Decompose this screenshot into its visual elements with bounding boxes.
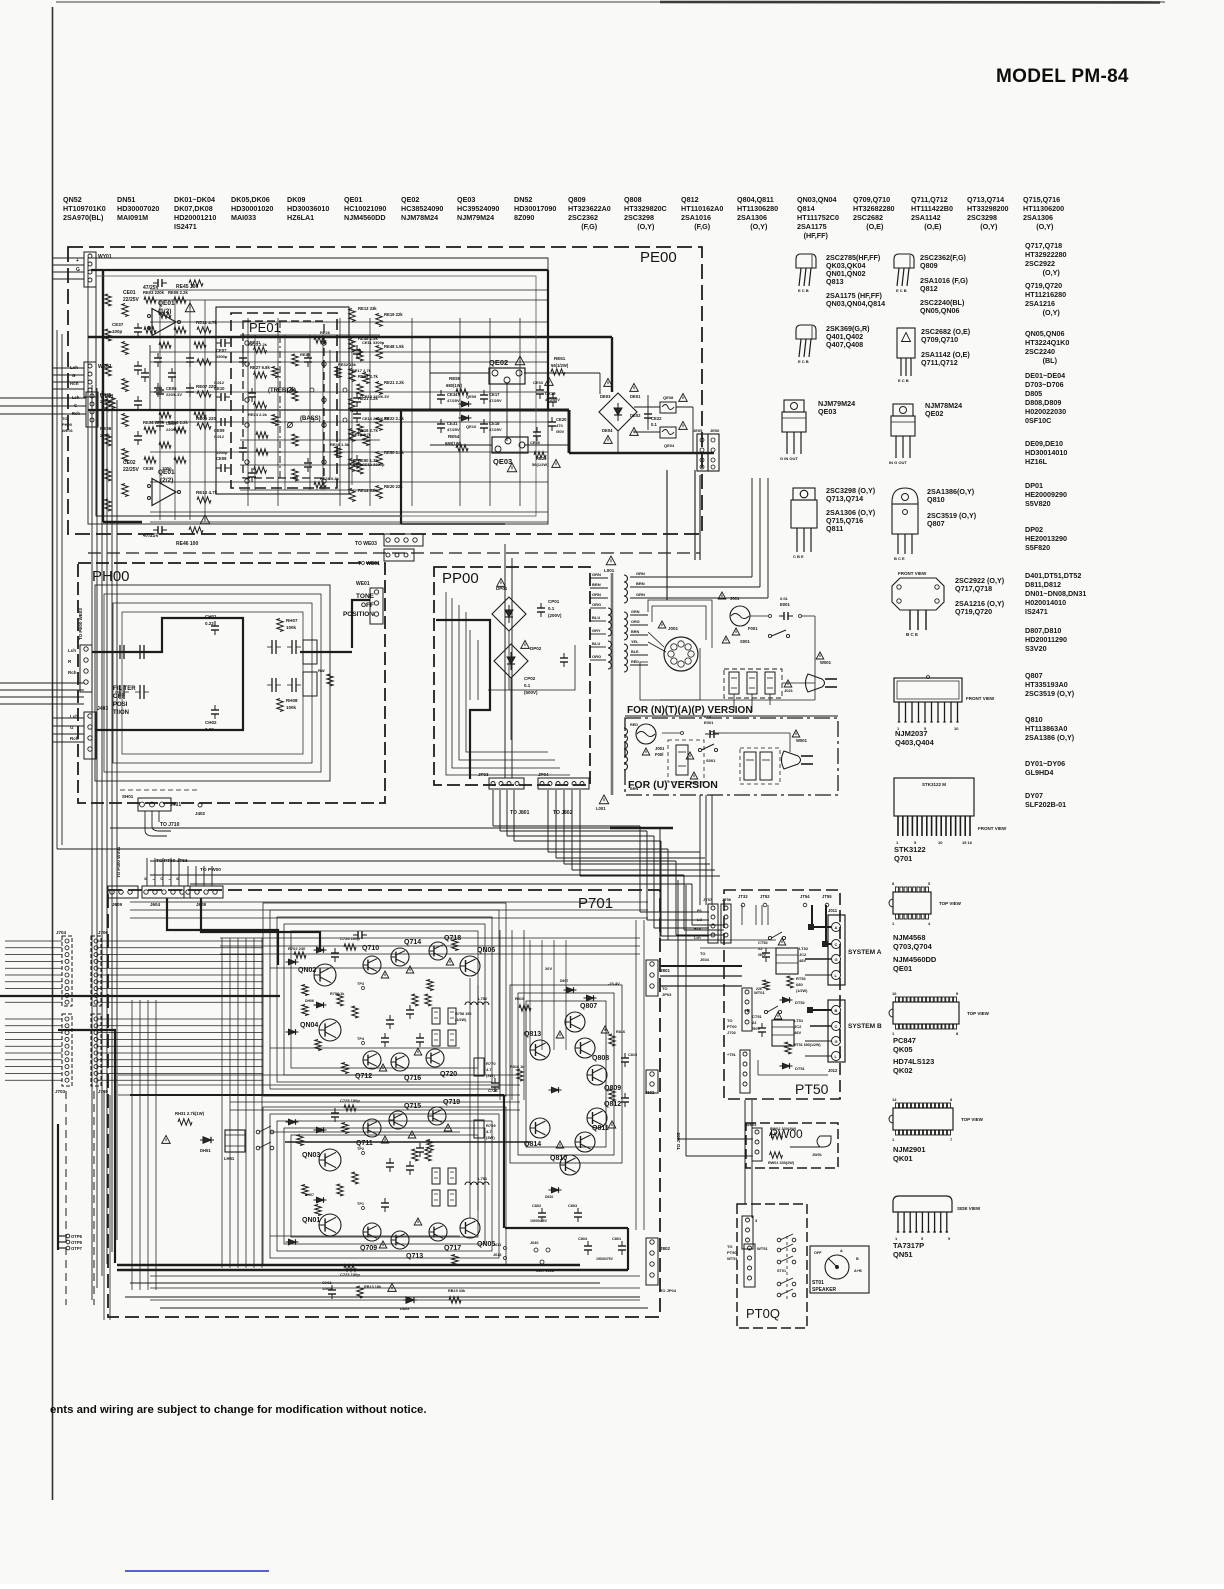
svg-text:(BL): (BL) xyxy=(1043,356,1058,365)
svg-text:DE01: DE01 xyxy=(630,394,641,399)
svg-text:JT33: JT33 xyxy=(738,894,748,899)
svg-text:L001: L001 xyxy=(604,568,615,573)
svg-text:(200V): (200V) xyxy=(548,613,562,618)
svg-text:A: A xyxy=(835,925,838,930)
svg-text:Q709,Q710: Q709,Q710 xyxy=(921,335,958,344)
svg-text:DE01~DE04: DE01~DE04 xyxy=(1025,371,1065,380)
svg-text:DT52: DT52 xyxy=(795,1000,806,1005)
svg-text:Q711,Q712: Q711,Q712 xyxy=(911,195,948,204)
svg-text:DH51: DH51 xyxy=(200,1148,211,1153)
svg-text:(500V): (500V) xyxy=(524,690,538,695)
svg-text:TA7317P: TA7317P xyxy=(893,1241,924,1250)
svg-text:B C E: B C E xyxy=(906,632,918,637)
svg-text:DN51: DN51 xyxy=(117,195,135,204)
svg-text:HT3224Q1K0: HT3224Q1K0 xyxy=(1025,338,1069,347)
svg-text:QE02: QE02 xyxy=(925,409,943,418)
svg-text:QN52: QN52 xyxy=(63,195,82,204)
svg-text:FRONT VIEW: FRONT VIEW xyxy=(898,571,927,576)
svg-text:RE13 33k: RE13 33k xyxy=(358,306,377,311)
svg-text:QN04: QN04 xyxy=(300,1022,318,1029)
svg-text:POSI: POSI xyxy=(113,702,128,708)
svg-text:HD30001020: HD30001020 xyxy=(231,204,273,213)
svg-text:L752: L752 xyxy=(478,996,488,1001)
svg-text:BRN: BRN xyxy=(592,582,601,587)
svg-text:CE02: CE02 xyxy=(123,460,136,466)
svg-text:Q711,Q712: Q711,Q712 xyxy=(921,358,958,367)
svg-text:GRY: GRY xyxy=(592,628,601,633)
svg-text:Rch: Rch xyxy=(72,411,80,416)
svg-text:1500p: 1500p xyxy=(216,450,228,455)
svg-text:F00l: F00l xyxy=(655,752,663,757)
svg-text:E001: E001 xyxy=(704,720,714,725)
svg-text:JE05: JE05 xyxy=(693,428,703,433)
svg-text:J802: J802 xyxy=(660,1246,671,1251)
svg-text:L751: L751 xyxy=(478,1176,488,1181)
svg-text:QN03,QN04,Q814: QN03,QN04,Q814 xyxy=(826,299,885,308)
svg-text:47/25V: 47/25V xyxy=(143,533,160,539)
svg-text:ST01: ST01 xyxy=(812,1280,824,1286)
svg-text:IS2471: IS2471 xyxy=(1025,607,1048,616)
svg-text:QN51: QN51 xyxy=(893,1250,913,1259)
svg-text:CE31: CE31 xyxy=(447,421,458,426)
svg-text:Q720: Q720 xyxy=(440,1071,457,1078)
svg-text:WT51: WT51 xyxy=(727,1256,738,1261)
svg-text:BLE: BLE xyxy=(631,650,639,654)
svg-text:TO WE03: TO WE03 xyxy=(355,541,377,547)
svg-text:DE09,DE10: DE09,DE10 xyxy=(1025,439,1063,448)
svg-text:22/25V: 22/25V xyxy=(123,297,140,303)
svg-text:HT3329820C: HT3329820C xyxy=(624,204,667,213)
svg-text:BLU: BLU xyxy=(592,641,600,646)
svg-text:(3W): (3W) xyxy=(486,1135,495,1140)
svg-text:LT52: LT52 xyxy=(799,946,809,951)
svg-text:D607: D607 xyxy=(560,979,568,983)
svg-text:+B: +B xyxy=(744,1008,751,1013)
svg-text:D703~D706: D703~D706 xyxy=(1025,380,1064,389)
svg-text:NJM79M24: NJM79M24 xyxy=(457,213,494,222)
svg-text:H020014010: H020014010 xyxy=(1025,598,1066,607)
svg-text:(O,Y): (O,Y) xyxy=(637,222,655,231)
svg-text:GRN: GRN xyxy=(592,592,601,597)
svg-text:RE23 2.2k: RE23 2.2k xyxy=(248,342,268,347)
svg-text:2SC3519 (O,Y): 2SC3519 (O,Y) xyxy=(1025,689,1075,698)
svg-text:CE22: CE22 xyxy=(651,416,662,421)
svg-text:HE20009290: HE20009290 xyxy=(1025,490,1067,499)
svg-text:56(1/2W): 56(1/2W) xyxy=(532,462,549,467)
svg-text:TO J801: TO J801 xyxy=(510,810,530,816)
svg-text:WT51: WT51 xyxy=(757,1246,768,1251)
svg-text:HT11306280: HT11306280 xyxy=(737,204,778,213)
svg-text:(O,Y): (O,Y) xyxy=(1043,308,1061,317)
svg-text:C803: C803 xyxy=(568,1204,577,1208)
svg-text:22: 22 xyxy=(752,1020,757,1025)
svg-text:LH51: LH51 xyxy=(224,1156,235,1161)
svg-text:J700: J700 xyxy=(98,1089,109,1094)
svg-text:HD20001210: HD20001210 xyxy=(174,213,216,222)
svg-text:TO PT50 JT56: TO PT50 JT56 xyxy=(156,858,188,864)
svg-text:220/6.3V: 220/6.3V xyxy=(166,427,182,432)
svg-text:470/50V: 470/50V xyxy=(545,397,560,402)
svg-text:RH08: RH08 xyxy=(286,698,298,703)
svg-text:D811,D812: D811,D812 xyxy=(1025,580,1061,589)
svg-text:CE37: CE37 xyxy=(112,322,124,327)
svg-text:D805: D805 xyxy=(1025,389,1042,398)
svg-text:J706: J706 xyxy=(98,930,109,935)
svg-text:ents and wiring are subject to: ents and wiring are subject to change fo… xyxy=(50,1404,427,1416)
svg-text:HT11306200: HT11306200 xyxy=(1023,204,1064,213)
svg-text:Q717,Q718: Q717,Q718 xyxy=(955,584,992,593)
svg-text:RE17 2.7k: RE17 2.7k xyxy=(352,368,372,373)
svg-text:(HF,FF): (HF,FF) xyxy=(804,231,829,240)
svg-text:NJM2037: NJM2037 xyxy=(895,729,928,738)
svg-text:G: G xyxy=(835,1039,838,1044)
svg-text:Q812: Q812 xyxy=(920,284,938,293)
svg-text:/50V: /50V xyxy=(758,952,767,957)
svg-text:D807,D810: D807,D810 xyxy=(1025,626,1061,635)
svg-text:QN01: QN01 xyxy=(302,1217,320,1224)
svg-text:FOR (U) VERSION: FOR (U) VERSION xyxy=(628,779,718,791)
svg-text:15 16: 15 16 xyxy=(962,840,973,845)
svg-text:R756 1k: R756 1k xyxy=(330,992,345,996)
svg-text:RH07: RH07 xyxy=(286,618,298,623)
svg-text:RE09 220: RE09 220 xyxy=(196,416,217,421)
svg-text:J001: J001 xyxy=(668,626,679,631)
svg-text:8Z090: 8Z090 xyxy=(514,213,534,222)
svg-text:B C E: B C E xyxy=(894,556,905,561)
svg-text:E001: E001 xyxy=(780,602,790,607)
svg-text:D803: D803 xyxy=(400,1307,409,1311)
svg-text:TO: TO xyxy=(727,1018,732,1023)
svg-text:RE11 4.7k: RE11 4.7k xyxy=(196,320,218,325)
svg-text:P6: P6 xyxy=(697,909,702,913)
svg-text:SH01: SH01 xyxy=(122,794,134,799)
svg-text:HT11216280: HT11216280 xyxy=(1025,290,1066,299)
svg-text:TOP VIEW: TOP VIEW xyxy=(961,1117,984,1122)
svg-text:Q813: Q813 xyxy=(524,1031,541,1038)
svg-text:IS2471: IS2471 xyxy=(174,222,197,231)
svg-text:Rch: Rch xyxy=(694,927,702,931)
svg-text:1/50V: 1/50V xyxy=(322,1287,332,1291)
svg-text:2SC3298: 2SC3298 xyxy=(967,213,997,222)
svg-text:RB13 18k: RB13 18k xyxy=(364,1285,382,1289)
svg-text:CE39: CE39 xyxy=(143,466,154,471)
svg-text:DP02: DP02 xyxy=(530,646,542,651)
svg-text:Q807: Q807 xyxy=(927,519,945,528)
svg-text:C724 100p: C724 100p xyxy=(340,936,360,941)
svg-text:MODEL PM-84: MODEL PM-84 xyxy=(996,66,1129,87)
svg-text:Q717: Q717 xyxy=(444,1245,461,1252)
svg-text:RE24 2.2k: RE24 2.2k xyxy=(248,412,268,417)
svg-text:(O,Y): (O,Y) xyxy=(750,222,768,231)
svg-text:R815: R815 xyxy=(515,997,524,1001)
svg-text:QE03: QE03 xyxy=(493,457,512,466)
svg-text:(O,Y): (O,Y) xyxy=(980,222,998,231)
svg-text:RED: RED xyxy=(630,723,638,727)
svg-text:JT52: JT52 xyxy=(760,894,770,899)
svg-text:RE48 1.5k: RE48 1.5k xyxy=(384,344,404,349)
svg-text:Q719,Q720: Q719,Q720 xyxy=(1025,281,1062,290)
svg-text:J604: J604 xyxy=(150,902,161,907)
svg-text:4.7: 4.7 xyxy=(486,1067,492,1072)
svg-text:DN52: DN52 xyxy=(514,195,532,204)
svg-text:G: G xyxy=(72,373,76,378)
svg-text:2SA1175: 2SA1175 xyxy=(797,222,827,231)
svg-text:220/6.3V: 220/6.3V xyxy=(166,392,182,397)
svg-text:RE46 100: RE46 100 xyxy=(176,541,198,547)
svg-text:JP04: JP04 xyxy=(538,772,549,777)
svg-text:DN01~DN08,DN31: DN01~DN08,DN31 xyxy=(1025,589,1086,598)
svg-text:HT32682280: HT32682280 xyxy=(853,204,895,213)
svg-text:470: 470 xyxy=(556,423,563,428)
svg-text:HD20011290: HD20011290 xyxy=(1025,635,1067,644)
svg-text:L001: L001 xyxy=(596,806,606,811)
svg-text:FOR (N)(T)(A)(P) VERSION: FOR (N)(T)(A)(P) VERSION xyxy=(627,705,753,716)
svg-text:Q811: Q811 xyxy=(826,524,843,533)
svg-text:C801: C801 xyxy=(612,1237,621,1241)
svg-text:HC10021090: HC10021090 xyxy=(344,204,386,213)
svg-text:Rch: Rch xyxy=(68,670,77,675)
svg-text:PP00: PP00 xyxy=(442,570,479,587)
svg-text:D401,DT51,DT52: D401,DT51,DT52 xyxy=(1025,571,1081,580)
svg-text:2SA1216: 2SA1216 xyxy=(1025,299,1055,308)
svg-text:B: B xyxy=(835,1008,838,1013)
svg-text:26V: 26V xyxy=(545,966,552,971)
svg-text:CP02: CP02 xyxy=(524,676,536,681)
svg-text:RE55: RE55 xyxy=(449,376,461,381)
svg-text:QK01: QK01 xyxy=(893,1154,913,1163)
svg-text:TO PW00: TO PW00 xyxy=(200,867,221,873)
svg-text:TO: TO xyxy=(662,986,667,991)
svg-text:0.01: 0.01 xyxy=(704,714,713,719)
svg-text:RE12 4.7k: RE12 4.7k xyxy=(196,490,218,495)
svg-text:CE15 220/6.3V: CE15 220/6.3V xyxy=(362,394,389,399)
svg-text:TO PE00 WE03: TO PE00 WE03 xyxy=(78,608,83,640)
svg-text:QE01: QE01 xyxy=(893,964,912,973)
svg-text:DP01: DP01 xyxy=(1025,481,1043,490)
svg-text:Q716: Q716 xyxy=(404,1075,421,1082)
svg-text:QE08: QE08 xyxy=(663,395,674,400)
svg-text:SLF202B-01: SLF202B-01 xyxy=(1025,800,1066,809)
svg-text:GRN: GRN xyxy=(631,610,640,614)
svg-text:BRN: BRN xyxy=(636,581,645,586)
svg-text:JP03: JP03 xyxy=(662,992,672,997)
svg-text:J011: J011 xyxy=(828,908,838,913)
svg-text:TOP VIEW: TOP VIEW xyxy=(967,1011,990,1016)
svg-text:HZ16L: HZ16L xyxy=(1025,457,1048,466)
svg-text:Q812: Q812 xyxy=(681,195,699,204)
svg-text:CT51: CT51 xyxy=(752,1014,763,1019)
svg-text:4.7: 4.7 xyxy=(486,1129,492,1134)
svg-text:CH02: CH02 xyxy=(205,720,217,725)
svg-text:HT111422B0: HT111422B0 xyxy=(911,204,953,213)
svg-text:LT51: LT51 xyxy=(794,1018,804,1023)
svg-text:YEL: YEL xyxy=(631,640,639,644)
svg-text:C: C xyxy=(835,1024,838,1029)
svg-text:SPEAKER: SPEAKER xyxy=(812,1287,837,1293)
svg-text:DK07,DK08: DK07,DK08 xyxy=(174,204,213,213)
svg-text:CE08: CE08 xyxy=(216,456,227,461)
svg-text:WE01: WE01 xyxy=(356,581,370,587)
svg-text:J401: J401 xyxy=(170,802,181,808)
svg-text:QN03: QN03 xyxy=(302,1152,320,1159)
svg-text:J703: J703 xyxy=(55,1089,66,1094)
svg-text:HT110162A0: HT110162A0 xyxy=(681,204,723,213)
svg-text:J012: J012 xyxy=(828,1068,838,1073)
svg-text:JT54: JT54 xyxy=(800,894,810,899)
svg-text:(2/2): (2/2) xyxy=(160,477,173,484)
svg-text:JW01: JW01 xyxy=(812,1153,822,1157)
svg-text:J611: J611 xyxy=(493,1243,501,1247)
svg-text:PT50: PT50 xyxy=(727,1250,737,1255)
svg-text:2SC2240: 2SC2240 xyxy=(1025,347,1055,356)
svg-text:GL9HD4: GL9HD4 xyxy=(1025,768,1053,777)
svg-text:RW01 330(2W): RW01 330(2W) xyxy=(768,1161,795,1165)
svg-text:CT52: CT52 xyxy=(758,940,769,945)
svg-text:WY01: WY01 xyxy=(98,254,112,260)
svg-text:RB19 33k: RB19 33k xyxy=(448,1289,466,1293)
svg-text:Q807: Q807 xyxy=(1025,671,1043,680)
svg-text:RE27 6.8k: RE27 6.8k xyxy=(250,365,270,370)
svg-text:BRN: BRN xyxy=(631,630,639,634)
svg-text:G: G xyxy=(835,957,838,962)
svg-text:16: 16 xyxy=(892,991,897,996)
svg-text:2SC2682: 2SC2682 xyxy=(853,213,883,222)
svg-text:Q811: Q811 xyxy=(592,1125,609,1132)
svg-text:JT57: JT57 xyxy=(703,897,713,902)
svg-text:ORG: ORG xyxy=(631,620,640,624)
svg-text:Rch: Rch xyxy=(70,736,79,741)
svg-text:QN05,QN06: QN05,QN06 xyxy=(920,306,960,315)
svg-text:QE10: QE10 xyxy=(466,424,477,429)
svg-text:Q709: Q709 xyxy=(360,1245,377,1252)
svg-text:0.01: 0.01 xyxy=(780,596,789,601)
svg-text:Q810: Q810 xyxy=(927,495,945,504)
svg-text:10: 10 xyxy=(938,840,943,845)
svg-text:Q804,Q811: Q804,Q811 xyxy=(737,195,774,204)
svg-text:J801: J801 xyxy=(660,968,671,973)
svg-text:2SA1016: 2SA1016 xyxy=(681,213,711,222)
svg-text:1500p: 1500p xyxy=(216,354,228,359)
svg-text:Q407,Q408: Q407,Q408 xyxy=(826,340,863,349)
svg-text:NJM4560DD: NJM4560DD xyxy=(344,213,386,222)
svg-text:HD30014010: HD30014010 xyxy=(1025,448,1067,457)
svg-text:(1/2W): (1/2W) xyxy=(796,989,808,993)
svg-text:CE19: CE19 xyxy=(545,391,556,396)
svg-text:RE14 33k: RE14 33k xyxy=(358,488,377,493)
svg-text:RE03 220k: RE03 220k xyxy=(143,290,165,295)
svg-text:WE01: WE01 xyxy=(62,428,74,433)
svg-text:+T51: +T51 xyxy=(727,1053,736,1057)
svg-text:0SF10C: 0SF10C xyxy=(1025,416,1051,425)
svg-text:RT52: RT52 xyxy=(796,976,807,981)
svg-text:FRONT VIEW: FRONT VIEW xyxy=(966,696,995,701)
svg-text:HT33298200: HT33298200 xyxy=(967,204,1009,213)
svg-text:Q717,Q718: Q717,Q718 xyxy=(1025,241,1062,250)
svg-text:HE20013290: HE20013290 xyxy=(1025,534,1067,543)
svg-text:J704: J704 xyxy=(56,930,67,935)
svg-text:OTP5: OTP5 xyxy=(71,1240,83,1245)
svg-text:JC2: JC2 xyxy=(794,1024,802,1029)
svg-text:HD30007020: HD30007020 xyxy=(117,204,159,213)
svg-text:DK09: DK09 xyxy=(287,195,305,204)
svg-text:NJM78M24: NJM78M24 xyxy=(401,213,438,222)
svg-text:47/25V: 47/25V xyxy=(489,427,502,432)
svg-text:PE00: PE00 xyxy=(640,249,677,266)
svg-text:Q809: Q809 xyxy=(568,195,586,204)
svg-text:W001: W001 xyxy=(820,660,832,665)
svg-text:56(1/2W): 56(1/2W) xyxy=(551,363,569,368)
svg-text:NJM2901: NJM2901 xyxy=(893,1145,926,1154)
svg-text:GRN: GRN xyxy=(592,572,601,577)
svg-text:J001: J001 xyxy=(655,746,665,751)
svg-text:Q403,Q404: Q403,Q404 xyxy=(895,738,935,747)
svg-text:MAI091M: MAI091M xyxy=(117,213,148,222)
svg-text:CE20: CE20 xyxy=(556,417,567,422)
svg-text:DY07: DY07 xyxy=(1025,791,1043,800)
svg-text:HD30036010: HD30036010 xyxy=(287,204,329,213)
svg-text:QE09: QE09 xyxy=(466,394,477,399)
svg-text:+: + xyxy=(76,258,79,264)
svg-text:Q713,Q714: Q713,Q714 xyxy=(967,195,1004,204)
svg-text:QE02: QE02 xyxy=(489,358,508,367)
svg-text:SYSTEM A: SYSTEM A xyxy=(848,949,882,956)
svg-text:TO J605: TO J605 xyxy=(676,1132,681,1150)
svg-text:QN05,QN06: QN05,QN06 xyxy=(1025,329,1065,338)
svg-text:JT56: JT56 xyxy=(722,897,732,902)
svg-text:B: B xyxy=(856,1257,859,1261)
svg-text:F001: F001 xyxy=(748,626,758,631)
svg-text:E C B: E C B xyxy=(798,288,809,293)
svg-text:TO: TO xyxy=(62,416,67,421)
svg-text:(O,Y): (O,Y) xyxy=(1043,268,1061,277)
svg-text:Q712: Q712 xyxy=(355,1073,372,1080)
svg-text:HC38524090: HC38524090 xyxy=(401,204,443,213)
svg-text:PT0Q: PT0Q xyxy=(746,1306,780,1321)
svg-text:TP4: TP4 xyxy=(357,1037,365,1041)
svg-text:P701: P701 xyxy=(578,895,613,912)
svg-text:2SA1306: 2SA1306 xyxy=(1023,213,1053,222)
svg-text:RE20 22k: RE20 22k xyxy=(384,484,403,489)
svg-text:HT109701K0: HT109701K0 xyxy=(63,204,106,213)
svg-text:CE34: CE34 xyxy=(447,392,458,397)
svg-text:RE51: RE51 xyxy=(554,356,566,361)
svg-text:DY01~DY06: DY01~DY06 xyxy=(1025,759,1065,768)
svg-text:TP2: TP2 xyxy=(357,1147,364,1151)
svg-text:RE19 22k: RE19 22k xyxy=(384,312,403,317)
svg-text:(O,E): (O,E) xyxy=(866,222,884,231)
svg-text:E C B: E C B xyxy=(896,288,907,293)
svg-text:Q715: Q715 xyxy=(404,1103,421,1110)
svg-text:R769: R769 xyxy=(486,1123,496,1128)
svg-text:22: 22 xyxy=(758,946,763,951)
svg-text:JP03: JP03 xyxy=(478,772,489,777)
svg-text:MAI033: MAI033 xyxy=(231,213,256,222)
svg-text:100p: 100p xyxy=(162,466,172,471)
svg-text:J607 J608: J607 J608 xyxy=(536,1269,554,1273)
svg-text:JC2: JC2 xyxy=(799,952,807,957)
svg-text:R758 150: R758 150 xyxy=(455,1012,471,1016)
svg-text:G IN OUT: G IN OUT xyxy=(780,456,798,461)
svg-text:GRN: GRN xyxy=(636,592,645,597)
svg-text:PH00: PH00 xyxy=(62,422,73,427)
svg-text:QE03: QE03 xyxy=(818,407,836,416)
svg-text:QE01: QE01 xyxy=(158,300,175,307)
svg-text:48V: 48V xyxy=(794,1030,801,1035)
svg-text:D808,D809: D808,D809 xyxy=(1025,398,1061,407)
svg-text:CE16 220/6.3V: CE16 220/6.3V xyxy=(362,416,389,421)
svg-text:DT51: DT51 xyxy=(795,1066,806,1071)
svg-text:QK02: QK02 xyxy=(893,1066,913,1075)
